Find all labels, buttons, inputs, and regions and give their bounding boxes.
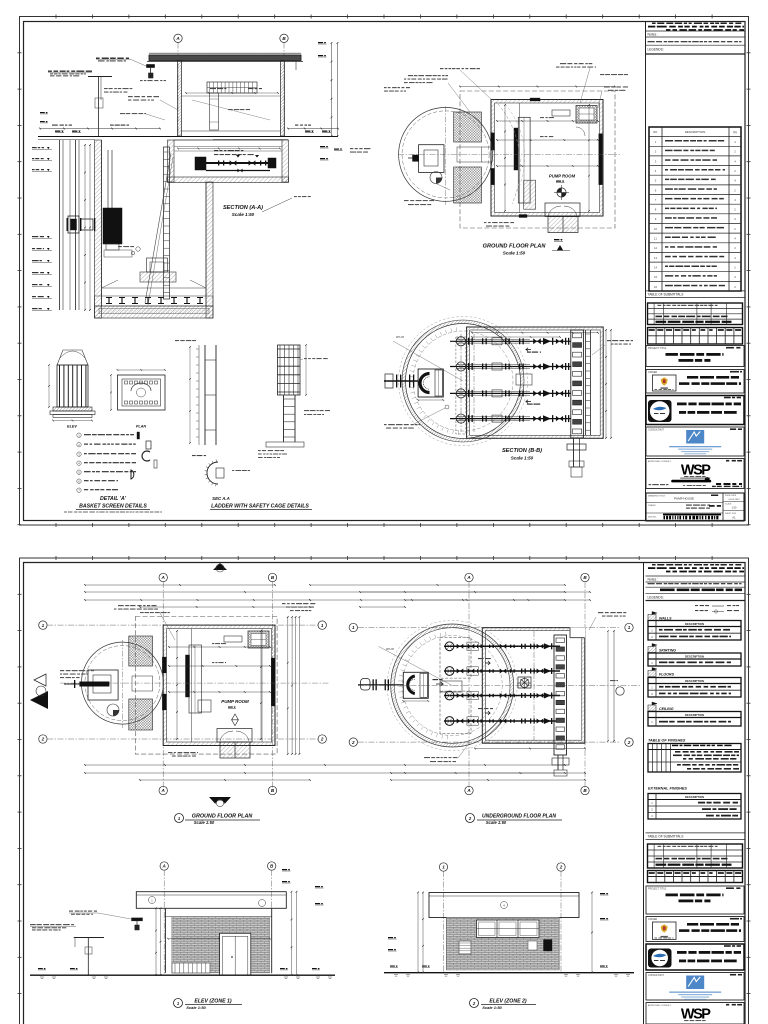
svg-text:TABLE OF FINISHES: TABLE OF FINISHES <box>648 739 686 743</box>
elev2 windows <box>477 920 540 938</box>
svg-text:2: 2 <box>734 169 736 173</box>
elev2 right dimension <box>591 892 608 974</box>
svg-text:DESCRIPTION: DESCRIPTION <box>685 130 706 134</box>
plan1 north arrow bottom <box>209 797 231 810</box>
svg-text:GROUND FLOOR PLAN: GROUND FLOOR PLAN <box>483 244 547 250</box>
plan1 interior equipment <box>186 629 243 743</box>
ground floor plan left labels <box>350 87 434 205</box>
svg-text:SHEET SIZE: SHEET SIZE <box>725 513 737 515</box>
svg-text:A: A <box>161 788 165 793</box>
plan1 bottom labels <box>168 752 198 757</box>
sheet 1 border tick marks <box>18 15 751 528</box>
svg-text:7: 7 <box>655 198 657 202</box>
ground line section A-A <box>38 137 338 140</box>
svg-text:SCALE: SCALE <box>725 503 732 506</box>
right level flags section A-A <box>320 146 343 160</box>
elev2 parapet <box>429 893 579 918</box>
svg-text:A: A <box>466 788 470 793</box>
svg-text:OWNER: OWNER <box>648 918 657 921</box>
basket screen plan view <box>110 369 166 428</box>
grid bubble A section A-A <box>174 34 182 136</box>
pump room basin section A-A <box>168 137 289 183</box>
svg-text:Notes :: Notes : <box>648 577 659 581</box>
sheet 2 inner border <box>24 563 746 1024</box>
ground floor plan screen blocks <box>454 112 491 203</box>
svg-text:4: 4 <box>734 237 736 241</box>
plan1 grid bubble A bottom <box>159 786 167 794</box>
plan2 grid bubble A bottom <box>465 786 473 794</box>
svg-text:DESCRIPTION: DESCRIPTION <box>685 795 704 799</box>
ground floor plan building walls <box>491 98 603 218</box>
svg-text:R8.00: R8.00 <box>386 647 394 651</box>
svg-text:PUMP ROOM: PUMP ROOM <box>221 699 249 704</box>
svg-text:2: 2 <box>472 1001 476 1006</box>
svg-text:1: 1 <box>42 623 45 628</box>
svg-text:Scale 1:50: Scale 1:50 <box>186 1005 206 1010</box>
svg-text:1: 1 <box>651 685 653 689</box>
svg-text:1: 1 <box>655 140 657 144</box>
svg-text:4: 4 <box>734 256 736 260</box>
svg-text:3: 3 <box>651 814 653 818</box>
sheet 1 project title box <box>646 346 744 367</box>
svg-text:1: 1 <box>321 623 324 628</box>
svg-text:B: B <box>271 788 275 793</box>
sheet 1 inner border <box>24 22 746 521</box>
plan1 grid bubble 2 left <box>39 735 320 743</box>
svg-text:OWNER: OWNER <box>648 371 657 374</box>
basket screen legend list <box>77 432 157 493</box>
plan2 grid bubbles 1 2 left <box>349 623 620 746</box>
ladder section detail <box>192 455 250 486</box>
plan1 title <box>175 814 261 826</box>
section B-B discharge riser <box>567 330 586 477</box>
sheet 2 outer border <box>20 558 749 1024</box>
elev1 ground line <box>30 968 335 979</box>
basket screen at shaft bottom section A-A <box>118 246 176 282</box>
plan1 crane and intake left <box>64 670 119 716</box>
svg-text:4: 4 <box>655 169 657 173</box>
elev1 rotary crane <box>30 924 104 975</box>
sheet 2 consultant box with blue logo <box>646 973 744 1001</box>
ground floor plan door and steps <box>545 203 580 233</box>
level marker top right section A-A <box>305 131 331 133</box>
ground floor plan interior dimensions <box>496 104 599 212</box>
sheet 2 table of finishes <box>648 739 741 773</box>
plan2 top dimension strings <box>359 591 591 608</box>
sheet 1 owner box with Egypt eagle logo <box>646 370 744 394</box>
svg-text:4: 4 <box>734 198 736 202</box>
svg-text:1: 1 <box>651 720 653 724</box>
section B-B intake assembly <box>384 369 444 401</box>
section B-B title <box>502 448 542 461</box>
svg-text:ISSUE DATE: ISSUE DATE <box>725 494 737 497</box>
section B-B radial ticks <box>393 327 463 434</box>
svg-text:PROJECT TITLE: PROJECT TITLE <box>648 347 667 350</box>
elev1 right dimension <box>282 869 324 976</box>
sheet 2 skirting finish section <box>648 644 741 667</box>
monorail crane section A-A <box>96 58 155 79</box>
plan1 stair block top right <box>248 631 269 648</box>
plan2 right leader labels <box>589 612 626 630</box>
svg-text:1: 1 <box>651 661 653 665</box>
plan1 wet well circle <box>60 640 330 728</box>
svg-text:APPROVED CONSULT.: APPROVED CONSULT. <box>648 1004 672 1007</box>
svg-text:A: A <box>175 36 179 41</box>
elev1 grid bubble A <box>160 862 168 975</box>
plan2 intake assembly <box>358 672 443 702</box>
sheet 2 table of submittals <box>646 833 746 883</box>
section B-B access ladder right <box>585 330 590 435</box>
elev1 lower vents <box>172 963 210 973</box>
sheet 2 border tick marks <box>18 556 751 994</box>
plan2 radial ticks <box>378 632 452 739</box>
svg-text:UNDERGROUND FLOOR PLAN: UNDERGROUND FLOOR PLAN <box>482 814 556 820</box>
sheet 2 owner box with Egypt eagle logo <box>646 917 744 942</box>
leader notes center section A-A <box>104 80 270 120</box>
svg-text:B: B <box>271 575 275 580</box>
plan1 grid bubble B bottom <box>268 786 276 794</box>
elev1 monorail bracket <box>69 911 143 931</box>
plan1 inner partition line <box>261 629 263 743</box>
svg-text:A1: A1 <box>732 516 736 520</box>
right vertical dimension section A-A <box>318 42 338 137</box>
svg-text:2: 2 <box>655 150 657 154</box>
svg-text:2: 2 <box>651 635 653 639</box>
sheet 2 title block column divider <box>643 563 645 1024</box>
plan1 leader labels top right <box>282 603 315 611</box>
svg-text:5: 5 <box>655 179 657 183</box>
svg-text:2: 2 <box>351 740 355 745</box>
ground floor plan dashed boundary <box>460 91 615 228</box>
svg-text:4: 4 <box>734 179 736 183</box>
level markers left column section A-A <box>32 147 52 311</box>
svg-text:4: 4 <box>734 275 736 279</box>
svg-text:14: 14 <box>654 266 658 270</box>
svg-text:FLOORS: FLOORS <box>659 673 675 677</box>
svg-text:TABLE OF SUBMITTALS: TABLE OF SUBMITTALS <box>648 293 684 297</box>
svg-text:11: 11 <box>654 237 657 241</box>
sheet 1 consultant box with blue logo <box>646 427 744 456</box>
elev1 building face <box>165 908 271 973</box>
elev1 left dimension chains <box>155 907 161 976</box>
ground floor plan bottom labels <box>484 222 514 227</box>
basket screen elevation <box>48 350 95 429</box>
svg-text:DESCRIPTION: DESCRIPTION <box>685 713 704 717</box>
plan2 grid bubble B bottom <box>581 786 589 794</box>
svg-text:2: 2 <box>41 737 45 742</box>
svg-text:ELEV (ZONE 1): ELEV (ZONE 1) <box>194 999 231 1005</box>
svg-text:LEGENDS:: LEGENDS: <box>648 48 664 52</box>
sheet 1 WSP logo box <box>646 459 744 489</box>
svg-text:2: 2 <box>651 808 653 812</box>
svg-text:1: 1 <box>442 865 445 870</box>
ladder details title <box>210 496 312 510</box>
sheet 2 legend key rows <box>695 605 739 614</box>
elev1 title <box>174 999 243 1011</box>
svg-text:3: 3 <box>655 159 657 163</box>
plan1 top dimension strings <box>84 584 566 608</box>
upper dimension string left section A-A <box>39 125 161 130</box>
roof slab section A-A <box>147 53 303 61</box>
pump room label <box>549 174 576 201</box>
svg-text:2: 2 <box>734 266 736 270</box>
svg-text:R8.00: R8.00 <box>396 335 404 339</box>
upper dimension string right section A-A <box>287 125 339 130</box>
svg-text:2: 2 <box>627 740 631 745</box>
sheet 2 external finishes table <box>648 787 741 820</box>
plan2 bottom dimension strings <box>390 748 586 774</box>
svg-text:CONSULTANT: CONSULTANT <box>648 428 664 431</box>
plan2 grid bubble A top <box>465 573 473 790</box>
svg-text:01.02.2023: 01.02.2023 <box>729 499 741 501</box>
svg-text:15: 15 <box>654 275 658 279</box>
ground floor plan leader labels top <box>404 63 628 112</box>
section B-B top dimension inside chamber <box>471 332 599 338</box>
section B-B chamber structure <box>467 327 604 438</box>
svg-text:4: 4 <box>734 159 736 163</box>
svg-text:PLAN: PLAN <box>136 425 147 429</box>
svg-text:SKIRTING: SKIRTING <box>659 649 676 653</box>
wet well shaft section A-A <box>95 140 214 318</box>
sheet 2 executing agency box with round logo <box>646 944 744 970</box>
svg-text:APPROVED CONSULT.: APPROVED CONSULT. <box>648 460 672 463</box>
svg-text:1:50: 1:50 <box>732 507 737 510</box>
elev2 grid bubble 1 <box>439 863 447 973</box>
ladder front view with cage <box>258 344 330 458</box>
left vertical dimension section A-A <box>84 144 91 311</box>
plan1 north arrow top <box>213 563 227 572</box>
elev2 ground line <box>384 966 634 977</box>
ground floor plan top dimension row <box>459 86 616 88</box>
ladder riser section A-A <box>145 147 173 305</box>
svg-text:2: 2 <box>734 188 736 192</box>
section B-B wet well circle <box>399 317 528 446</box>
svg-text:1: 1 <box>651 801 653 805</box>
sheet 1 drawing title box <box>646 493 745 521</box>
elev2 louver and vent <box>459 940 552 955</box>
svg-text:LADDER WITH SAFETY CAGE DETAIL: LADDER WITH SAFETY CAGE DETAILS <box>211 504 309 510</box>
svg-text:B: B <box>270 864 274 869</box>
plan2 building outline <box>482 628 585 744</box>
plan1 building walls <box>162 625 275 745</box>
sheet 2 walls finish section <box>648 612 741 641</box>
svg-text:PUMP ROOM: PUMP ROOM <box>549 174 576 179</box>
sheet 1 table of submittals <box>646 291 746 344</box>
section B-B pump assemblies <box>450 337 571 424</box>
svg-text:Qty: Qty <box>733 130 738 134</box>
svg-text:B: B <box>282 36 286 41</box>
svg-text:DESCRIPTION: DESCRIPTION <box>685 622 704 626</box>
svg-text:A: A <box>161 575 165 580</box>
svg-text:A: A <box>466 575 470 580</box>
plan1 interior dimensions <box>168 630 271 740</box>
svg-text:2: 2 <box>734 285 736 289</box>
plan1 dashed boundary <box>135 617 277 755</box>
level symbol right of plan title <box>552 239 570 251</box>
grid bubble B section A-A <box>280 34 288 136</box>
svg-text:4: 4 <box>734 217 736 221</box>
svg-text:PUMP HOUSE: PUMP HOUSE <box>674 497 694 501</box>
detail A title <box>64 496 162 513</box>
svg-text:4: 4 <box>734 140 736 144</box>
svg-text:1: 1 <box>628 625 631 630</box>
plan2 grid bubble B top <box>581 573 589 790</box>
plan2 discharge riser column <box>552 635 569 776</box>
plan1 door and steps <box>217 729 252 759</box>
svg-text:1: 1 <box>151 899 153 903</box>
plan1 elev arrow marker left <box>30 674 48 709</box>
svg-text:Scale 1:50: Scale 1:50 <box>482 1005 502 1010</box>
plan2 pump bays dashed <box>440 637 471 733</box>
plan1 leader labels top left <box>60 605 175 678</box>
plan1 grid bubble 1 left <box>39 621 320 629</box>
svg-text:SECTION (A-A): SECTION (A-A) <box>223 205 263 211</box>
section B-B right dimension <box>605 329 612 439</box>
svg-text:ELEV (ZONE 2): ELEV (ZONE 2) <box>489 999 526 1005</box>
svg-text:16: 16 <box>654 285 658 289</box>
section B-B pump guide columns <box>456 334 474 434</box>
svg-text:13: 13 <box>654 256 658 260</box>
svg-text:EXTERNAL FINISHES: EXTERNAL FINISHES <box>648 787 687 791</box>
svg-text:CEILING: CEILING <box>659 707 674 711</box>
svg-text:LEGENDS:: LEGENDS: <box>648 596 664 600</box>
svg-text:SEC A.A: SEC A.A <box>212 496 230 501</box>
svg-text:TABLE OF SUBMITTALS: TABLE OF SUBMITTALS <box>648 835 684 839</box>
svg-text:2: 2 <box>559 865 563 870</box>
svg-text:Notes :: Notes : <box>648 32 659 36</box>
svg-text:2: 2 <box>651 692 653 696</box>
elev2 building face <box>447 918 560 971</box>
sheet 2 ceiling finish section <box>648 702 741 726</box>
svg-text:CONSULTANT: CONSULTANT <box>648 974 664 977</box>
submersible pump section A-A <box>103 150 132 257</box>
svg-text:2: 2 <box>734 246 736 250</box>
plan2 bottom leader labels <box>424 742 470 762</box>
svg-text:4: 4 <box>503 904 505 908</box>
plan2 title <box>466 814 563 826</box>
svg-text:DRG NO.: DRG NO. <box>648 517 657 519</box>
plan2 pump rows <box>440 642 560 726</box>
svg-text:8: 8 <box>655 208 657 212</box>
plan1 pump room label <box>221 699 249 726</box>
svg-text:6: 6 <box>655 188 657 192</box>
sheet 2 WSP logo box <box>646 1003 744 1024</box>
svg-text:2: 2 <box>734 208 736 212</box>
sheet 1 notes block <box>646 23 746 55</box>
ground floor plan intake box <box>408 145 450 190</box>
svg-text:Scale 1:50: Scale 1:50 <box>503 251 526 256</box>
svg-text:Scale 1:50: Scale 1:50 <box>511 456 534 461</box>
svg-text:DESCRIPTION: DESCRIPTION <box>685 654 704 658</box>
ground floor plan stair block top right <box>576 106 597 137</box>
svg-text:2: 2 <box>734 150 736 154</box>
plan1 right dimension chains <box>287 616 300 755</box>
svg-text:Scale 1:50: Scale 1:50 <box>232 212 255 217</box>
svg-text:1: 1 <box>178 816 181 821</box>
elev1 grid bubble B <box>268 862 276 975</box>
shaft floor lines section A-A <box>102 280 207 288</box>
section B-B left labels <box>384 405 449 429</box>
elev1 door <box>220 933 251 975</box>
svg-text:1: 1 <box>177 1001 180 1006</box>
elev2 left dimension <box>388 892 424 974</box>
svg-text:2: 2 <box>320 737 324 742</box>
svg-text:SECTION (B-B): SECTION (B-B) <box>502 448 542 454</box>
pump set in basin section A-A <box>195 150 276 172</box>
svg-text:Scale 1:50: Scale 1:50 <box>194 820 215 825</box>
section A-A title <box>223 196 311 217</box>
elev2 title <box>470 999 537 1011</box>
elev2 grid bubble 2 <box>557 863 565 973</box>
plan2 centerlines <box>358 631 640 741</box>
svg-text:2: 2 <box>734 227 736 231</box>
svg-text:NO.: NO. <box>653 130 658 134</box>
svg-text:DESCRIPTION: DESCRIPTION <box>685 679 704 683</box>
plan2 right dimension lines <box>607 630 624 742</box>
plan1 grid bubble A top <box>159 573 167 790</box>
svg-text:Scale 1:50: Scale 1:50 <box>486 820 507 825</box>
sheet 2 notes block <box>646 564 746 601</box>
svg-text:DRAWING TITLE: DRAWING TITLE <box>648 495 666 498</box>
sheet 2 project title box <box>646 886 744 914</box>
superstructure walls section A-A <box>178 61 297 137</box>
svg-text:12: 12 <box>654 246 658 250</box>
section B-B top right label <box>592 340 633 355</box>
svg-text:BASKET SCREEN DETAILS: BASKET SCREEN DETAILS <box>79 504 147 510</box>
ground floor plan interior equipment <box>498 103 570 213</box>
ground floor plan wet well circle <box>398 106 620 205</box>
svg-text:DETAIL 'A': DETAIL 'A' <box>100 496 127 502</box>
plan1 grid bubble B top <box>268 573 276 790</box>
svg-text:PROJECT TITLE: PROJECT TITLE <box>648 887 667 890</box>
svg-text:A: A <box>162 864 166 869</box>
sheet 1 equipment schedule table <box>649 127 741 291</box>
svg-text:2: 2 <box>468 816 472 821</box>
ladder side elevation <box>175 340 216 445</box>
plan1 bottom dimension strings <box>84 764 586 781</box>
svg-text:GROUND FLOOR PLAN: GROUND FLOOR PLAN <box>192 814 253 820</box>
basin internal lines section A-A <box>174 147 282 152</box>
svg-text:B: B <box>583 575 587 580</box>
ground floor plan title <box>483 244 547 256</box>
inlet pipes left section A-A <box>60 140 96 310</box>
sheet 1 executing agency box with round logo <box>646 396 744 425</box>
sheet 1 outer border <box>20 17 749 526</box>
sheet 1 title block column divider <box>645 22 647 522</box>
crane grating section A-A <box>207 82 257 130</box>
svg-text:ELEV: ELEV <box>67 425 77 429</box>
plan2 grid bubbles right <box>625 623 633 746</box>
level marker top left section A-A <box>40 112 81 133</box>
svg-text:1: 1 <box>352 625 355 630</box>
plan2 wet well circle with hatch ring <box>387 621 517 751</box>
sheet 2 floors finish section <box>648 668 741 698</box>
svg-text:1: 1 <box>651 628 653 632</box>
svg-text:10: 10 <box>654 227 658 231</box>
plan1 grid bubbles right <box>318 621 326 743</box>
svg-text:B: B <box>583 788 587 793</box>
plan1 screen blocks <box>129 636 153 730</box>
pile I-beams section A-A <box>99 298 209 314</box>
rotary crane section A-A <box>48 71 112 137</box>
elev1 parapet <box>136 892 286 909</box>
svg-text:9: 9 <box>655 217 657 221</box>
svg-text:DRAWN: DRAWN <box>648 504 656 507</box>
